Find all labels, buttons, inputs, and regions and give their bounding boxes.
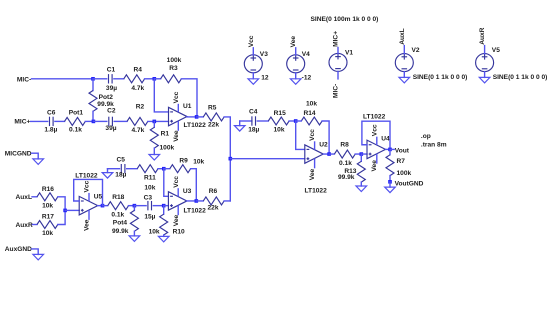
resistor R14 <box>301 117 322 125</box>
svg-text:100k: 100k <box>167 57 182 64</box>
svg-text:MIC+: MIC+ <box>333 31 340 47</box>
wire V2 top stub <box>403 46 405 54</box>
svg-text:10k: 10k <box>273 127 284 134</box>
svg-text:-12: -12 <box>302 74 312 81</box>
wire R1 top lead <box>153 121 155 127</box>
capacitor C5 <box>121 164 125 173</box>
wire C4-R15 <box>257 120 268 122</box>
wire C4 ground stub <box>239 121 241 126</box>
svg-text:100k: 100k <box>397 170 412 177</box>
svg-text:MIC-: MIC- <box>17 76 31 83</box>
svg-text:R11: R11 <box>144 174 156 181</box>
voltage source V4 <box>287 55 305 73</box>
svg-text:AuxR: AuxR <box>479 27 486 44</box>
wire V5 bottom stub <box>484 72 486 78</box>
resistor R1 <box>150 127 158 148</box>
svg-text:AuxL: AuxL <box>399 28 406 45</box>
wire R9 to U3 output <box>191 169 197 201</box>
wire R8-node <box>355 153 361 155</box>
resistor R10 <box>160 214 168 235</box>
wire node to U2 inverting input <box>296 121 305 149</box>
svg-text:C1: C1 <box>107 66 116 73</box>
wire C3 left lead <box>134 205 146 207</box>
ground R10 <box>158 236 169 242</box>
capacitor C6 <box>50 117 54 126</box>
svg-text:U5: U5 <box>94 193 103 200</box>
resistor R3 <box>161 75 182 83</box>
wire gnd-C4 <box>240 120 252 122</box>
wire MIC- rail <box>32 78 94 80</box>
resistor Pot1 <box>65 117 86 125</box>
ground C5 <box>102 173 113 179</box>
wire U3 output <box>187 200 196 202</box>
svg-text:SINE(0 100m 1k 0 0 0): SINE(0 100m 1k 0 0 0) <box>311 16 379 23</box>
junction MIC- / Pot2 / C1 <box>91 77 95 81</box>
wire C1 left lead <box>93 78 107 80</box>
wire V5 top stub <box>484 46 486 54</box>
capacitor C4 <box>252 116 256 125</box>
wire V4 top stub <box>295 48 297 55</box>
resistor R9 <box>170 165 191 173</box>
svg-text:R17: R17 <box>42 214 54 221</box>
svg-text:VoutGND: VoutGND <box>395 180 424 187</box>
svg-text:V2: V2 <box>412 47 420 54</box>
junction U3 output / R9 <box>195 199 199 203</box>
svg-text:22k: 22k <box>207 205 218 212</box>
svg-text:12: 12 <box>261 74 269 81</box>
wire node to U1 inverting input <box>154 79 168 112</box>
voltage source V2 <box>395 54 413 72</box>
wire Vout stub <box>390 148 394 150</box>
svg-text:Vee: Vee <box>371 160 378 172</box>
wire C1-R4 <box>114 78 124 80</box>
wire R16 to junction <box>58 197 65 211</box>
svg-text:Vcc: Vcc <box>84 180 91 192</box>
svg-text:MICGND: MICGND <box>5 150 32 157</box>
op-amp U5 <box>79 196 98 215</box>
svg-text:V3: V3 <box>260 51 268 58</box>
resistor Pot4 <box>130 210 138 231</box>
wire gnd-C5 <box>108 168 120 170</box>
junction mixing node <box>229 157 233 161</box>
svg-text:18µ: 18µ <box>115 172 126 179</box>
svg-text:4.7k: 4.7k <box>131 127 144 134</box>
svg-text:0.1k: 0.1k <box>69 127 82 134</box>
svg-text:AuxGND: AuxGND <box>5 246 32 253</box>
wire R1 bottom lead <box>153 148 155 154</box>
svg-text:C5: C5 <box>116 157 125 164</box>
svg-text:Vee: Vee <box>173 214 180 226</box>
junction R11 / R9 / U3 inverting <box>162 167 166 171</box>
wire R5 left lead <box>197 116 204 118</box>
junction R4 / R3 / inverting input <box>153 77 157 81</box>
wire V1 top stub <box>337 48 339 54</box>
wire Pot2 bottom lead <box>92 111 94 121</box>
ground V5 <box>479 77 490 83</box>
svg-text:C4: C4 <box>249 109 258 116</box>
svg-text:V5: V5 <box>492 47 500 54</box>
junction U2 output / R14 <box>327 152 331 156</box>
svg-text:LT1022: LT1022 <box>305 187 328 194</box>
svg-text:Vee: Vee <box>290 36 297 48</box>
svg-text:Pot4: Pot4 <box>113 220 128 227</box>
resistor R2 <box>127 117 148 125</box>
svg-text:10k: 10k <box>149 229 160 236</box>
svg-text:4.7k: 4.7k <box>131 85 144 92</box>
svg-text:10k: 10k <box>144 184 155 191</box>
ground R13 <box>356 186 367 192</box>
svg-text:SINE(0 1 1k 0 0 0): SINE(0 1 1k 0 0 0) <box>493 74 548 81</box>
wire R13 top lead <box>360 154 362 161</box>
svg-text:MIC-: MIC- <box>333 84 340 98</box>
wire R3 feedback to U1 output <box>181 79 197 117</box>
wire U4 feedback loop <box>362 121 390 149</box>
svg-text:AuxR: AuxR <box>16 222 33 229</box>
wire node to U4 noninverting input <box>361 153 367 155</box>
svg-text:V1: V1 <box>345 49 353 56</box>
svg-text:U1: U1 <box>183 103 192 110</box>
resistor R7 <box>386 155 394 176</box>
svg-text:C2: C2 <box>107 108 116 115</box>
resistor Pot2 <box>89 91 97 112</box>
wire R5 to mixing node vertical <box>224 117 230 201</box>
svg-text:U3: U3 <box>183 188 192 195</box>
svg-text:LT1022: LT1022 <box>184 122 207 129</box>
junction R2 / R1 <box>153 120 157 124</box>
wire R7 bottom lead <box>389 176 391 182</box>
wire mixing node to U2 noninverting input <box>230 158 304 160</box>
wire R6 to mixing node <box>224 200 230 202</box>
junction C3 / R10 / U3 noninverting <box>162 204 166 208</box>
svg-text:R5: R5 <box>208 105 217 112</box>
voltage source V3 <box>244 55 262 73</box>
wire C6-Pot1 <box>55 120 65 122</box>
wire Pot1-node <box>85 120 93 122</box>
junction U5 output / feedback <box>101 204 105 208</box>
junction U1 output / feedback <box>195 115 199 119</box>
svg-text:R10: R10 <box>173 229 185 236</box>
svg-text:39µ: 39µ <box>105 125 116 132</box>
svg-text:0.1k: 0.1k <box>111 212 124 219</box>
svg-text:Vcc: Vcc <box>173 176 180 188</box>
wire Pot2 top lead <box>92 79 94 91</box>
wire node to U3 inverting input <box>164 169 169 197</box>
wire R9 left lead <box>164 168 170 170</box>
svg-text:Vcc: Vcc <box>173 91 180 103</box>
svg-text:R2: R2 <box>136 104 145 111</box>
svg-text:LT1022: LT1022 <box>363 114 386 121</box>
op-amp U1 <box>169 107 188 126</box>
wire R4-node <box>145 78 155 80</box>
svg-text:Vee: Vee <box>309 168 316 180</box>
voltage source V1 <box>329 53 347 71</box>
ground C4 <box>234 126 245 132</box>
svg-text:99.9k: 99.9k <box>338 174 355 181</box>
junction R18 / Pot4 / C3 <box>133 204 137 208</box>
wire U5 feedback loop <box>74 179 103 205</box>
resistor R8 <box>334 150 355 158</box>
svg-text:R4: R4 <box>133 66 142 73</box>
wire C3-node <box>153 205 163 207</box>
svg-text:Vee: Vee <box>84 219 91 231</box>
wire U1 output <box>187 116 197 118</box>
wire U5 output <box>98 205 103 207</box>
wire R18-node <box>129 205 135 207</box>
svg-text:R1: R1 <box>161 131 170 138</box>
wire R11-node <box>158 168 164 170</box>
svg-text:22k: 22k <box>208 122 219 129</box>
svg-text:100k: 100k <box>160 145 175 152</box>
wire U2 output <box>323 153 329 155</box>
junction U4 output / Vout / R7 <box>388 148 392 152</box>
resistor R11 <box>137 165 158 173</box>
svg-text:Vcc: Vcc <box>248 35 255 47</box>
svg-text:1.8µ: 1.8µ <box>44 127 57 134</box>
ground V3 <box>248 79 259 85</box>
svg-text:10k: 10k <box>193 159 204 166</box>
svg-text:0.1k: 0.1k <box>339 160 352 167</box>
wire R14 left lead <box>296 120 302 122</box>
capacitor C1 <box>109 74 113 83</box>
ground Pot4 <box>129 236 140 242</box>
wire Pot4 top lead <box>133 206 135 211</box>
wire R17 to junction <box>58 210 65 224</box>
op-amp U3 <box>168 192 187 211</box>
svg-text:10k: 10k <box>42 203 53 210</box>
svg-text:LT1022: LT1022 <box>75 172 98 179</box>
svg-text:15µ: 15µ <box>144 214 155 221</box>
svg-text:R14: R14 <box>303 110 315 117</box>
resistor R18 <box>108 202 129 210</box>
svg-text:C3: C3 <box>144 195 153 202</box>
resistor R15 <box>268 117 289 125</box>
svg-text:R8: R8 <box>340 142 349 149</box>
wire V2 bottom stub <box>403 72 405 78</box>
wire V4 bottom stub <box>295 73 297 79</box>
wire AuxR to R17 <box>33 224 38 226</box>
svg-text:99.9k: 99.9k <box>112 228 129 235</box>
svg-text:R6: R6 <box>209 188 218 195</box>
wire R15-node <box>289 120 296 122</box>
ground R1 <box>149 155 160 161</box>
svg-text:V4: V4 <box>302 51 310 58</box>
wire node to U3 noninverting input <box>164 205 169 207</box>
svg-text:10k: 10k <box>306 100 317 107</box>
svg-text:AuxL: AuxL <box>16 194 33 201</box>
svg-text:LT1022: LT1022 <box>184 208 207 215</box>
junction R8 / R13 / U4 noninverting <box>360 152 364 156</box>
junction R16 / R17 <box>63 209 67 213</box>
capacitor C2 <box>109 117 113 126</box>
wire C2 left lead <box>93 120 106 122</box>
wire C5 ground stub <box>107 169 109 173</box>
wire AuxL to R16 <box>32 196 37 198</box>
svg-text:Vcc: Vcc <box>309 129 316 141</box>
ground AuxGND <box>33 254 44 260</box>
ground MICGND <box>33 159 44 165</box>
wire R7 top lead <box>389 149 391 154</box>
wire R14 to U2 output <box>322 121 329 154</box>
svg-text:Vcc: Vcc <box>371 124 378 136</box>
wire R6 left lead <box>196 200 203 202</box>
svg-text:18µ: 18µ <box>248 127 259 134</box>
voltage source V5 <box>476 54 494 72</box>
svg-text:R15: R15 <box>274 110 286 117</box>
svg-text:Pot1: Pot1 <box>69 109 84 116</box>
wire VoutGND ground stub <box>389 182 391 187</box>
svg-text:.op: .op <box>421 133 431 140</box>
op-amp U4 <box>367 140 386 159</box>
resistor R17 <box>37 221 58 229</box>
ground V4 <box>290 79 301 85</box>
capacitor C3 <box>148 201 152 210</box>
svg-text:Vee: Vee <box>173 130 180 142</box>
svg-text:R16: R16 <box>42 186 54 193</box>
resistor R4 <box>124 75 145 83</box>
svg-text:39µ: 39µ <box>106 85 117 92</box>
wire R13 bottom lead <box>360 182 362 186</box>
wire V3 bottom stub <box>252 73 254 79</box>
wire V3 top stub <box>252 48 254 55</box>
svg-text:10k: 10k <box>42 230 53 237</box>
wire to U5 noninverting input <box>65 209 79 211</box>
resistor R16 <box>37 193 58 201</box>
svg-text:U2: U2 <box>319 142 328 149</box>
wire V1 bottom stub <box>337 71 339 79</box>
wire MIC+ to C6 <box>31 120 48 122</box>
wire AuxGND stub <box>32 249 39 255</box>
wire R10 top lead <box>163 206 165 215</box>
wire R10 bottom lead <box>163 235 165 236</box>
resistor R5 <box>203 113 224 121</box>
svg-text:R9: R9 <box>179 158 188 165</box>
junction R7 / VoutGND <box>388 180 392 184</box>
ground V2 <box>399 77 410 83</box>
junction R15 / R14 / U2 inverting <box>294 119 298 123</box>
wire C5-R11 <box>127 168 138 170</box>
svg-text:MIC+: MIC+ <box>14 118 30 125</box>
svg-text:U4: U4 <box>381 136 390 143</box>
ground VoutGND <box>385 187 396 193</box>
svg-text:Vout: Vout <box>395 147 410 154</box>
wire U4 output <box>386 148 391 150</box>
wire R2 to U1 noninverting input <box>148 120 169 122</box>
resistor R6 <box>203 197 224 205</box>
wire Pot4 bottom lead <box>133 231 135 236</box>
junction Pot1 / Pot2 / C2 <box>92 120 96 124</box>
svg-text:R3: R3 <box>169 65 178 72</box>
svg-text:.tran 8m: .tran 8m <box>421 141 447 148</box>
wire R3 left lead <box>154 78 160 80</box>
svg-text:R18: R18 <box>112 194 124 201</box>
wire MICGND stub <box>32 153 39 159</box>
svg-text:SINE(0 1 1k 0 0 0): SINE(0 1 1k 0 0 0) <box>413 74 468 81</box>
resistor R13 <box>357 161 365 182</box>
op-amp U2 <box>305 145 324 164</box>
svg-text:R7: R7 <box>397 158 406 165</box>
svg-text:C6: C6 <box>47 109 56 116</box>
wire R18 left lead <box>103 205 108 207</box>
wire R8 left lead <box>329 153 334 155</box>
wire C2-R2 <box>114 120 127 122</box>
